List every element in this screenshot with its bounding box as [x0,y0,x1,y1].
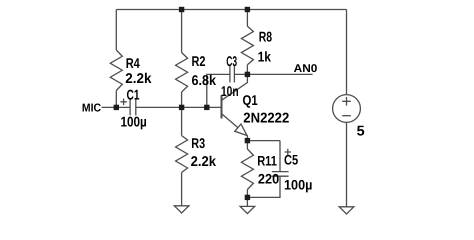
transistor Q1 emitter [222,114,248,141]
voltage source plus sign [342,97,351,106]
wire AN0 output [235,73,313,75]
svg-text:C5: C5 [284,153,298,168]
wire R8 bottom lead [246,65,248,75]
node top rail / R2 junction [179,7,184,12]
wire R11 bottom lead [246,190,248,198]
wire R8 top lead [246,10,248,27]
svg-text:10n: 10n [221,83,239,99]
svg-text:100µ: 100µ [284,178,312,193]
voltage source V1 5V [333,95,361,123]
transistor Q1 base bar [221,95,223,118]
C1 polarity plus [120,99,126,105]
wire R2 bottom lead [181,92,183,107]
svg-text:100µ: 100µ [121,114,147,130]
wire C3 branch up from base node [207,74,230,107]
capacitor C1 [129,99,131,115]
voltage source minus sign [342,115,351,117]
node R2 / R3 / base wire junction [179,105,184,110]
svg-text:R3: R3 [191,135,205,151]
ground under source [339,207,354,214]
node R11 / C5 bottom / ground junction [245,195,250,200]
transistor Q1 collector [222,74,248,100]
svg-text:1k: 1k [258,48,272,64]
svg-text:MIC: MIC [82,103,101,115]
svg-text:220: 220 [258,172,280,187]
resistor R3 [176,136,188,173]
svg-text:6.8k: 6.8k [192,72,217,88]
wire R4 bottom lead [115,91,117,108]
svg-text:C3: C3 [226,53,237,69]
wire C5 bottom lead [247,176,280,197]
wire top power rail [116,9,346,11]
transistor Q1 emitter arrow [235,124,247,136]
capacitor C5 [272,171,289,173]
node C3 branch / base wire junction [204,105,209,110]
wire C1 to base node [136,106,222,108]
ground under R11 [240,206,255,213]
wire R2 top lead [181,10,183,53]
svg-text:R4: R4 [126,55,140,71]
ground under R3 [174,206,189,213]
resistor R11 [241,149,253,190]
capacitor C3 [229,66,231,83]
svg-text:Q1: Q1 [243,93,258,109]
svg-text:AN0: AN0 [294,63,318,75]
svg-text:R2: R2 [192,53,206,69]
node emitter / R11 / C5 junction [245,138,250,143]
wire R11 top lead [246,141,248,149]
resistor R4 [110,50,122,91]
wire C5 top lead [279,141,281,172]
svg-text:C1: C1 [127,86,140,102]
svg-text:2.2k: 2.2k [125,70,151,86]
wire source top lead [346,10,348,95]
resistor R2 [176,53,188,93]
node top rail / R8 junction [245,7,250,12]
svg-text:R8: R8 [259,28,272,44]
wire source bottom lead [346,122,348,206]
wire R3 bottom lead [181,172,183,205]
wire R3 top lead [181,107,183,135]
svg-text:2N2222: 2N2222 [243,111,289,127]
wire R4 top lead [115,10,117,51]
svg-text:5: 5 [357,123,365,139]
node collector / R8 / C3 / AN0 junction [245,72,250,77]
wire emitter node to C5 branch [247,140,280,142]
node MIC / R4 / C1 junction [114,105,119,110]
wire bottom node to ground [246,197,248,206]
resistor R8 [241,26,253,65]
wire MIC input to C1 [102,106,130,108]
C5 polarity plus [285,149,291,155]
svg-text:R11: R11 [257,153,277,168]
svg-text:2.2k: 2.2k [191,153,217,169]
